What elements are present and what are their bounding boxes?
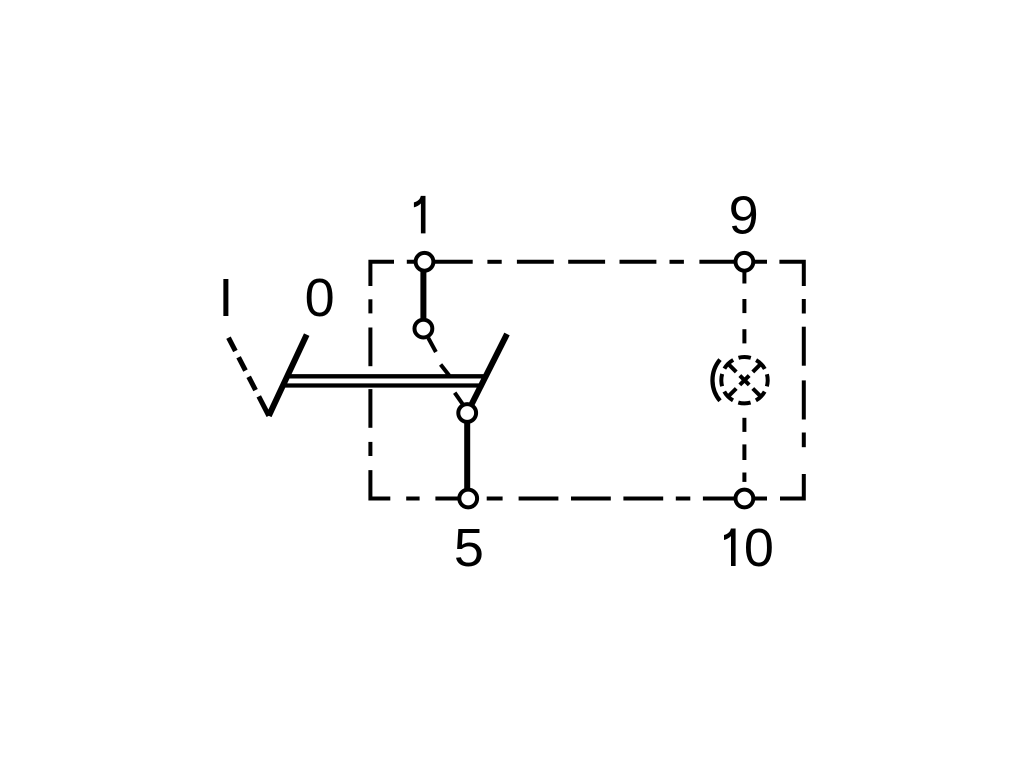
svg-text:9: 9 xyxy=(729,186,759,246)
svg-text:I: I xyxy=(218,268,233,328)
svg-text:0: 0 xyxy=(744,518,774,578)
svg-text:0: 0 xyxy=(305,268,335,328)
svg-text:5: 5 xyxy=(454,518,484,578)
